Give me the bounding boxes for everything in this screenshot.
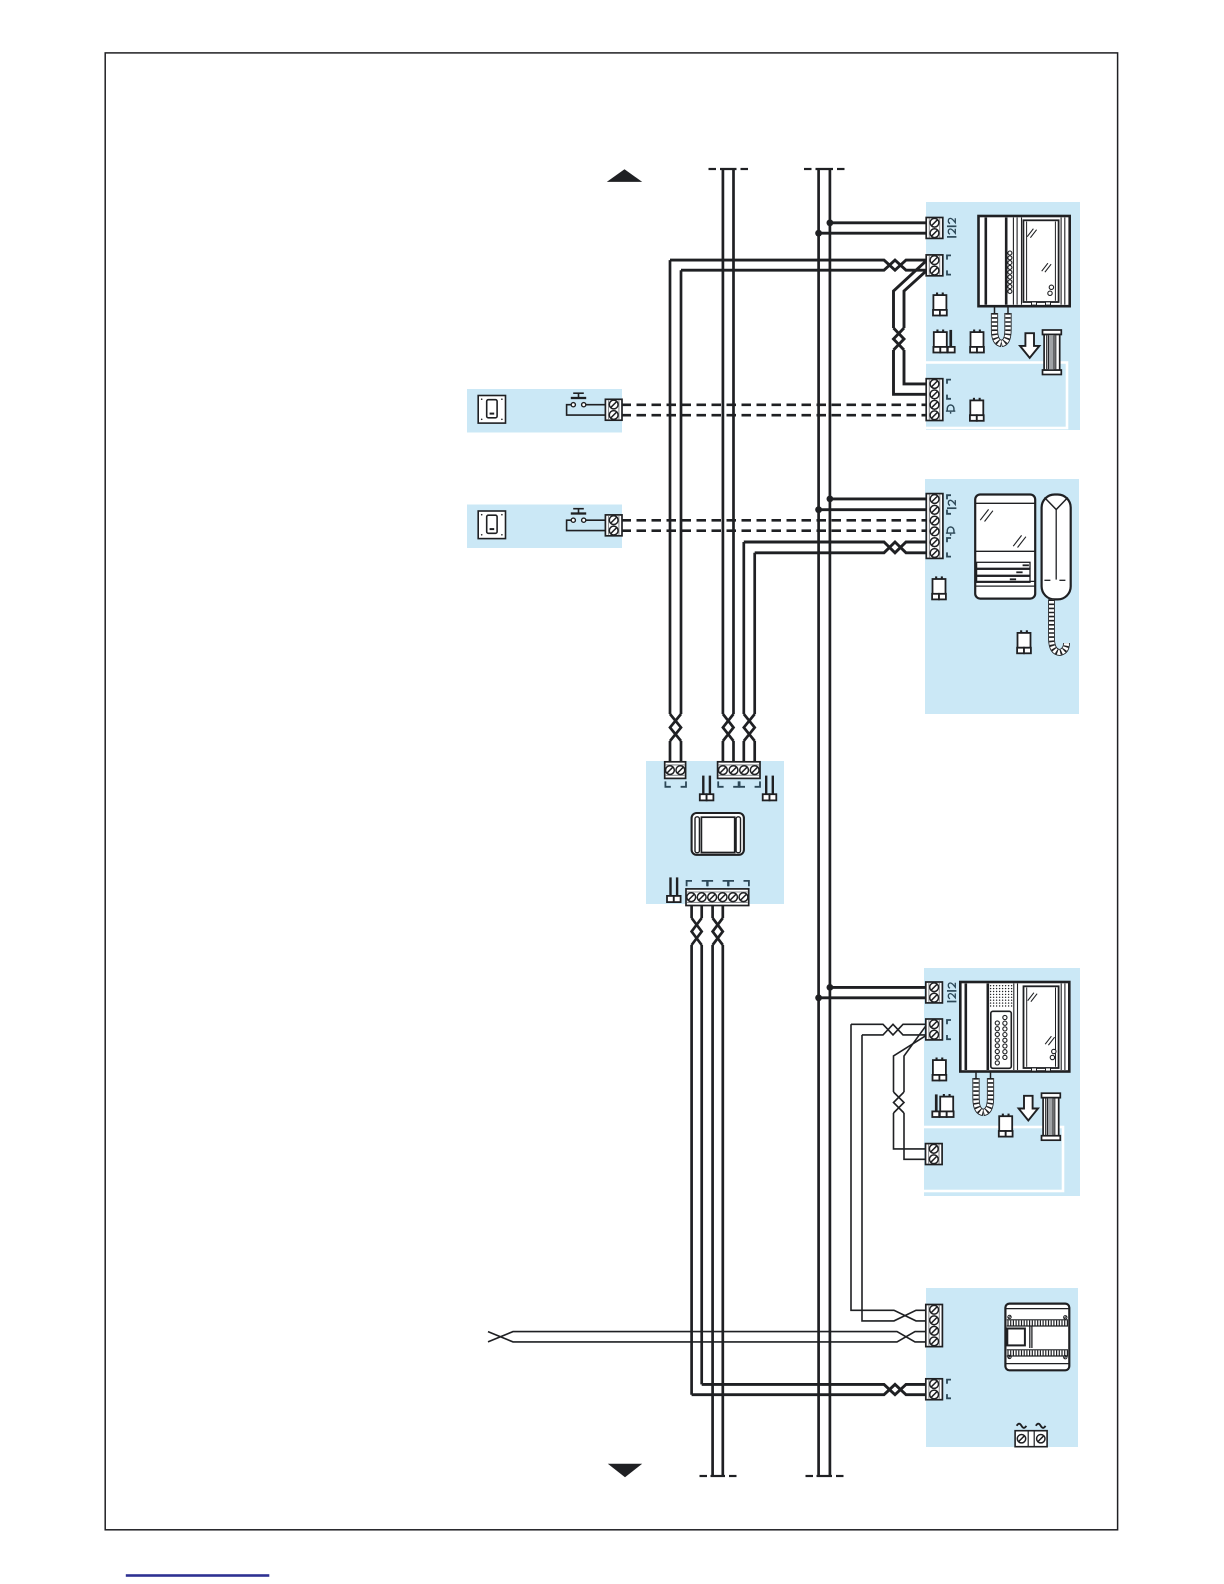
junction dot bus B to station B line 2 xyxy=(815,506,822,513)
station A divider bar xyxy=(1005,218,1008,305)
station A trim lines xyxy=(1012,218,1014,305)
terminal block station B xyxy=(926,494,943,559)
station C terminal2 bracket bottom xyxy=(947,1035,951,1039)
wire bus B to station B terminal line 2 xyxy=(819,508,927,511)
station B bell symbol xyxy=(947,527,954,533)
terminal block distribution bottom xyxy=(686,889,749,906)
station B button row 3 xyxy=(977,576,1030,582)
wire bus B to station A terminal line 1 xyxy=(830,221,927,224)
station B coiled cord xyxy=(1052,599,1067,652)
apartment station panel B (handset phone) xyxy=(925,479,1079,714)
twisted-pair mark downstream pair 2 xyxy=(713,918,723,945)
station C speaker dot grid xyxy=(990,985,991,986)
wire downstream riser 3 xyxy=(711,903,714,918)
terminal block station C t1 xyxy=(926,982,943,1003)
terminal block station C t2 xyxy=(926,1019,943,1040)
wire station C loop horiz conductor 1 xyxy=(851,1024,927,1035)
wire station C inner loop conductor 1 xyxy=(904,1024,927,1092)
dashed wire switch 2 line b xyxy=(622,529,928,532)
station A coiled cord right xyxy=(1002,313,1009,344)
wire riser pair to station B conductor 1 xyxy=(744,542,927,553)
apartment station panel C (keypad unit) xyxy=(924,968,1080,1196)
PSU AC input terminal xyxy=(1015,1431,1047,1447)
station C jumper 1 xyxy=(936,1058,938,1061)
station A door knob dots xyxy=(1049,285,1053,289)
apartment station panel A (top right) xyxy=(926,202,1080,430)
wire riser pair to station A conductor 1 xyxy=(670,260,927,270)
station B terminal bracket top a xyxy=(947,495,951,499)
station A down arrow xyxy=(1020,333,1039,358)
station B handset xyxy=(1042,495,1071,600)
station C keypad panel xyxy=(991,1011,1012,1068)
wire feed to PSU conductor 2 xyxy=(692,1384,927,1394)
terminal block station C lower xyxy=(926,1144,943,1165)
station C door reflection upper xyxy=(1028,993,1034,1001)
page border frame xyxy=(105,53,1117,1530)
wire station C inner loop conductor 2 xyxy=(894,1035,928,1092)
PSU top trim line xyxy=(1005,1308,1069,1310)
station B glass bottom line xyxy=(975,550,1035,552)
wire riser bus B right conductor xyxy=(829,169,832,1476)
station A speaker hole column xyxy=(1008,251,1012,255)
twisted-pair mark station A riser xyxy=(670,714,681,741)
station C coiled cord left xyxy=(976,1078,983,1113)
terminal block station A t1 xyxy=(926,218,943,239)
station A jumper 3 xyxy=(973,330,975,333)
footer rule xyxy=(126,1574,269,1577)
wire station C drop conductor 2 xyxy=(862,1035,927,1321)
station A lower terminal bracket bottom xyxy=(947,395,951,399)
station C DIN connector sleeve xyxy=(1042,1093,1061,1098)
station A lower terminal bracket top xyxy=(947,380,951,384)
wire pushbutton 1 to terminal xyxy=(586,404,606,406)
station B terminal label 2 xyxy=(947,507,956,509)
wire downstream riser 1 xyxy=(690,903,693,918)
distribution jumper parked 1 xyxy=(702,776,704,796)
power supply unit body xyxy=(1005,1304,1069,1371)
station C right trim lines xyxy=(1060,984,1062,1071)
terminal block switch panel 1 xyxy=(605,399,622,420)
terminal block distribution t1 xyxy=(665,762,686,779)
wire riser pair to station B conductor 2 xyxy=(755,542,927,553)
wire bus B to station C terminal line 2 xyxy=(819,996,927,999)
wire bus B to station A terminal line 2 xyxy=(819,232,927,235)
twisted-pair mark station A loop xyxy=(894,328,905,350)
wire riser bus A left conductor xyxy=(722,169,725,714)
station A right trim lines xyxy=(1060,218,1062,305)
terminal block switch panel 2 xyxy=(605,515,622,536)
station A door reflection lower xyxy=(1042,263,1048,271)
twisted-pair mark bus A above distribution unit xyxy=(723,714,734,741)
pushbutton 2 xyxy=(573,508,584,510)
distribution jumper parked 2 xyxy=(765,776,767,796)
wire riser bus B left conductor xyxy=(817,169,820,1476)
wire station A loop conductor 1 xyxy=(894,260,928,328)
station A handset cord stubs xyxy=(994,306,996,313)
downstream pair bottom continuation dash-dot xyxy=(700,1475,708,1477)
station C down arrow xyxy=(1019,1096,1038,1121)
station C cradle bar xyxy=(964,984,967,1071)
station A handset cradle bar xyxy=(984,218,987,305)
distribution t2 pair marks xyxy=(718,781,723,786)
PSU corner screws xyxy=(1008,1315,1011,1318)
junction dot bus B to station B line 1 xyxy=(827,496,834,503)
switch plate 2 xyxy=(478,511,505,539)
station A terminal2 pair bracket top xyxy=(947,255,951,259)
station B lower trim lines xyxy=(975,580,1035,582)
station A jumper 1 xyxy=(936,293,938,296)
wire riser bus A right conductor xyxy=(732,169,735,714)
junction dot bus B to station A line 2 xyxy=(815,230,822,237)
station B glass reflection lower xyxy=(1013,535,1021,546)
station B jumper 2 xyxy=(1020,630,1022,633)
station A terminal1 label 2-2 xyxy=(947,225,956,227)
station C divider bar xyxy=(986,984,989,1071)
handset phone station B body xyxy=(975,495,1035,599)
wire bus B to station B terminal line 1 xyxy=(830,497,927,500)
distribution unit flush module xyxy=(692,813,744,855)
power supply panel D (bottom right) xyxy=(926,1288,1078,1447)
station C door knob dots xyxy=(1052,1049,1056,1053)
dashed wire switch 1 line b xyxy=(622,414,928,417)
station A bell symbol xyxy=(947,405,954,411)
station C keypad buttons xyxy=(1003,1015,1007,1019)
station A DIN connector sleeve xyxy=(1043,330,1062,335)
bus B top continuation dash-dot xyxy=(804,168,812,170)
junction dot bus B to station C line 2 xyxy=(815,994,822,1001)
dashed wire switch 2 line a xyxy=(622,519,928,522)
PSU AC squiggle left xyxy=(1017,1424,1027,1428)
distribution bottom pair marks xyxy=(687,881,692,886)
station A front door panel xyxy=(1023,220,1058,302)
station B terminal bracket top b xyxy=(947,538,951,542)
dashed wire switch 1 line a xyxy=(622,403,928,406)
station B terminal bracket bottom b xyxy=(947,552,951,556)
station A jumper 2 with bar xyxy=(936,330,938,333)
station C cord stubs xyxy=(975,1072,977,1079)
door release switch panel 1 (left) xyxy=(467,389,622,433)
wire feed to PSU conductor 1 xyxy=(702,1384,927,1394)
pushbutton 1 xyxy=(573,392,584,394)
twisted-pair mark station C inner loop xyxy=(894,1092,905,1113)
twisted-pair mark downstream pair 1 xyxy=(692,918,702,945)
PSU bottom trim line xyxy=(1005,1363,1069,1365)
station C door reflection lower xyxy=(1045,1036,1051,1044)
wire station C drop conductor 1 xyxy=(851,1024,927,1321)
terminal block PSU 4-way xyxy=(926,1305,943,1347)
bus B bottom continuation dash-dot xyxy=(806,1475,814,1477)
station A coiled cord left xyxy=(995,313,1002,344)
twisted-pair mark station B riser xyxy=(744,714,755,741)
wire bus B to station C terminal line 1 xyxy=(830,986,927,989)
wire downstream riser 2 xyxy=(700,903,703,918)
bus A top continuation dash-dot xyxy=(709,168,717,170)
station C terminal2 bracket top xyxy=(947,1020,951,1024)
station C trim lines xyxy=(1013,984,1015,1071)
station C terminal1 label 2-2 xyxy=(947,990,956,992)
PSU module window xyxy=(1007,1329,1025,1346)
PSU divider double line xyxy=(1029,1327,1031,1349)
station B button row 2 xyxy=(977,569,1030,575)
riser continuation arrow up xyxy=(607,169,642,182)
door release switch panel 2 (left) xyxy=(467,505,622,549)
station B button row 1 xyxy=(977,562,1030,568)
station A jumper 4 xyxy=(973,398,975,401)
keypad intercom station C body xyxy=(960,982,1069,1072)
station C jumper 3 xyxy=(1002,1114,1004,1117)
station B top trim line xyxy=(975,502,1035,504)
wire mains pair conductor 2 xyxy=(488,1332,927,1342)
panel A inner white outline box xyxy=(921,363,1067,429)
station C jumper 2 with bar xyxy=(943,1094,945,1097)
PSU vent slots bottom xyxy=(1007,1349,1068,1351)
distribution jumper parked 3 xyxy=(669,877,671,897)
terminal block distribution t2 xyxy=(718,762,760,779)
wire station C loop horiz conductor 2 xyxy=(862,1024,927,1035)
distribution t1 pair marks xyxy=(665,781,670,786)
intercom unit station A body xyxy=(979,216,1070,306)
station A door reflection upper xyxy=(1027,229,1033,237)
wire mains pair conductor 1 xyxy=(488,1332,927,1342)
PSU terminal bracket bottom xyxy=(947,1394,951,1398)
station B jumper 1 xyxy=(935,576,937,579)
junction dot bus B to station C line 1 xyxy=(827,984,834,991)
wire downstream riser 4 xyxy=(721,903,724,918)
terminal block station A lower xyxy=(926,379,943,421)
junction dot bus B to station A line 1 xyxy=(827,219,834,226)
station B glass reflection upper xyxy=(980,509,988,520)
wire station A loop conductor 2 xyxy=(904,270,927,328)
terminal block PSU 2-way xyxy=(926,1379,943,1400)
station C front door panel xyxy=(1024,986,1059,1068)
PSU terminal bracket top xyxy=(947,1380,951,1384)
station C coiled cord right xyxy=(983,1078,990,1113)
PSU vent slots top xyxy=(1007,1319,1068,1321)
station A terminal2 pair bracket bottom xyxy=(947,270,951,274)
switch plate 1 xyxy=(478,396,505,424)
distribution unit panel (center) xyxy=(646,761,784,904)
terminal block station A t2 xyxy=(926,255,943,276)
riser continuation arrow down xyxy=(608,1464,642,1478)
wire riser pair to station A conductor 2 xyxy=(681,260,927,270)
PSU AC squiggle right xyxy=(1036,1424,1046,1428)
wire pushbutton 2 to terminal xyxy=(586,519,606,521)
station B terminal bracket bottom a xyxy=(947,510,951,514)
panel C inner white outline box xyxy=(921,1127,1063,1191)
